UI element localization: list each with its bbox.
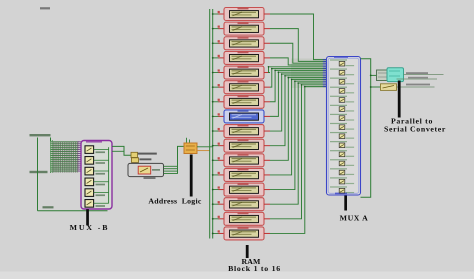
label Serial Conveter: [384, 124, 446, 133]
wire: RAM block 7 output to MUX A: [270, 70, 327, 102]
svg-text:MUX A: MUX A: [340, 213, 369, 222]
wire: RAM block 14 output to MUX A: [270, 82, 327, 204]
address counter box: [128, 163, 164, 176]
svg-text:MUX -B: MUX -B: [70, 223, 110, 232]
wire: RAM block 15 output to MUX A: [270, 84, 327, 219]
wire: scope output: [397, 84, 435, 87]
converter base block: [377, 70, 394, 81]
net label: input signal name (top left): [30, 134, 51, 136]
wire: MUX-B second output: [112, 150, 124, 152]
MUX A callout pointer: [344, 196, 347, 211]
label Parallel to: [391, 117, 433, 126]
counter label under box: [144, 177, 156, 179]
MUX A switch 6: [330, 105, 354, 112]
RAM callout pointer: [246, 245, 249, 258]
MUX A block body: [327, 56, 361, 195]
MUX A switch 15: [330, 186, 354, 193]
MUX A switch 5: [330, 96, 354, 103]
converter highlight block (teal): [387, 68, 404, 82]
svg-text:Serial Conveter: Serial Conveter: [384, 124, 446, 133]
address source component 1: [131, 152, 157, 157]
MUX-B internal output bus wire: [108, 147, 110, 203]
wire: second left vertical feed: [51, 138, 53, 174]
RAM block 7: [212, 95, 270, 108]
wire: tap to converter input: [370, 75, 377, 77]
MUX A switch 3: [330, 78, 354, 85]
Address Logic callout pointer: [190, 155, 193, 197]
MUX A left edge pins: [323, 60, 327, 87]
wire: left vertical feed: [37, 138, 39, 211]
annotation text top-left: [40, 7, 50, 9]
wire: bottom horizontal to MUX-B: [38, 210, 108, 212]
RAM block 6: [212, 81, 270, 94]
MUX-B switch 5: [85, 189, 109, 197]
wire: converter second output: [397, 77, 438, 79]
net label: clock (bottom left): [43, 206, 54, 208]
RAM block 14: [212, 198, 270, 211]
RAM address bus verticals: [210, 9, 213, 239]
wire: address vertical riser: [178, 146, 185, 173]
MUX A switch 7: [330, 114, 354, 121]
svg-text:Block 1 to 16: Block 1 to 16: [228, 264, 281, 273]
RAM block 8: [212, 110, 270, 123]
MUX A switch 13: [330, 168, 354, 175]
wire: tap to scope input: [370, 86, 381, 88]
RAM block 5: [212, 66, 270, 79]
wire: RAM block 8 output to MUX A: [270, 71, 327, 116]
RAM block 10: [212, 139, 270, 152]
MUX-B left edge pins: [78, 142, 82, 171]
wire: MUX A output: [361, 59, 371, 198]
RAM block 13: [212, 183, 270, 196]
bus band: 16 input wires into MUX-B: [50, 141, 79, 173]
address logic gate stubs above: [187, 138, 190, 143]
counter element: [138, 166, 160, 174]
MUX A switch 12: [330, 159, 354, 166]
label MUX A: [340, 213, 369, 222]
wire: RAM block 9 output to MUX A: [270, 73, 327, 131]
MUX A switch 9: [330, 132, 354, 139]
MUX A switch 14: [330, 177, 354, 184]
address source component 2: [131, 158, 151, 163]
wire: MUX-B output to address chain: [112, 146, 131, 155]
RAM block 3: [212, 37, 270, 50]
address logic gate (orange): [184, 143, 197, 154]
label MUX -B: [70, 223, 110, 232]
wire: RAM block 6 output to MUX A: [270, 68, 327, 87]
wire: RAM block 10 output to MUX A: [270, 75, 327, 146]
net label: input signal name (mid left): [30, 171, 48, 173]
scope block (yellow): [381, 84, 397, 91]
bottom light band: [0, 272, 474, 279]
MUX A switch 11: [330, 150, 354, 157]
wire: RAM block 1 output to MUX A: [270, 14, 327, 60]
RAM block 12: [212, 168, 270, 181]
MUX A switch 2: [330, 68, 354, 75]
RAM block 4: [212, 51, 270, 64]
RAM block 2: [212, 22, 270, 35]
RAM block 1: [212, 8, 270, 21]
wire: RAM block 2 output to MUX A: [270, 29, 327, 62]
label Block 1 to 16: [228, 264, 281, 273]
wire: RAM block 16 output to MUX A: [270, 86, 327, 234]
RAM block 15: [212, 212, 270, 225]
wires: counter box outputs: [164, 166, 178, 173]
MUX-B switch 3: [85, 167, 109, 175]
label Address Logic: [148, 197, 201, 206]
label RAM: [242, 257, 261, 266]
RAM block 16: [212, 227, 270, 240]
MUX A switch 10: [330, 141, 354, 148]
RAM block 9: [212, 125, 270, 138]
MUX A switch 8: [330, 123, 354, 130]
MUX-B callout pointer: [86, 209, 89, 225]
wire: RAM block 3 output to MUX A: [270, 43, 327, 63]
wire: RAM block 12 output to MUX A: [270, 79, 327, 175]
Parallel to Serial callout pointer: [398, 81, 401, 118]
bus band shading into MUX A: [291, 59, 326, 89]
MUX-B switch 2: [85, 157, 109, 165]
MUX A switch 1: [330, 59, 354, 66]
wire: RAM block 11 output to MUX A: [270, 77, 327, 161]
wire: RAM block 5 output to MUX A: [268, 66, 327, 73]
MUX-B switch 1: [85, 146, 109, 154]
svg-text:Address Logic: Address Logic: [148, 197, 201, 206]
MUX A switch 4: [330, 87, 354, 94]
MUX-B switch 4: [85, 178, 109, 186]
MUX-B switch 6: [85, 200, 109, 208]
wire: gate output to RAM address bus: [197, 147, 213, 151]
RAM block 11: [212, 154, 270, 167]
wire: RAM block 13 output to MUX A: [270, 80, 327, 189]
wire: converter serial output: [404, 72, 444, 74]
MUX-B block body: [81, 141, 112, 210]
wire: RAM block 4 output to MUX A: [270, 58, 327, 65]
